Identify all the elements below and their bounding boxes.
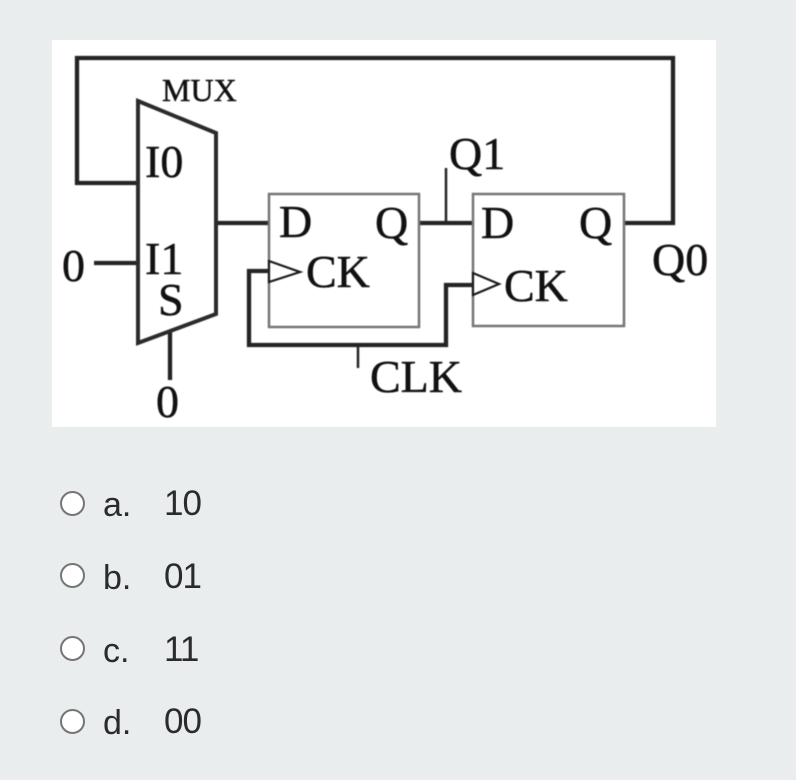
option d (60, 709, 85, 734)
pin label D of U1 (279, 196, 312, 247)
clock triangle U1 (269, 261, 300, 282)
label MUX (162, 72, 237, 108)
svg-text:CLK: CLK (370, 351, 462, 402)
svg-text:CK: CK (504, 260, 568, 311)
svg-text:CK: CK (306, 246, 370, 297)
svg-text:Q: Q (375, 197, 408, 248)
svg-text:0: 0 (156, 376, 179, 427)
pin label S (158, 274, 184, 325)
clock triangle U2 (473, 273, 499, 295)
wire node CLK tick (357, 345, 360, 368)
net label CLK (370, 351, 462, 402)
wire MUX output to FF1 D (216, 221, 269, 225)
option b (60, 563, 85, 588)
svg-text:MUX: MUX (162, 72, 237, 108)
pin label D of U2 (481, 197, 514, 248)
pin label Q of U1 (375, 197, 408, 248)
mux MUX (138, 101, 216, 343)
svg-text:D: D (279, 196, 312, 247)
pin label CK of U1 (306, 246, 370, 297)
figure panel (52, 40, 716, 427)
wire node Q1 tick (445, 168, 448, 223)
pin label I1 (145, 233, 183, 284)
pin label CK of U2 (504, 260, 568, 311)
pin label I0 (145, 136, 183, 187)
value 0 at I1 input (62, 240, 85, 291)
wire feedback Q0 to MUX I0 (77, 58, 673, 223)
pin label Q of U2 (579, 197, 612, 248)
svg-text:Q1: Q1 (449, 128, 505, 179)
flip-flop U2 box (473, 194, 624, 326)
option c (60, 636, 85, 661)
net label Q0 (652, 234, 708, 285)
svg-text:S: S (158, 274, 184, 325)
option a (60, 491, 85, 516)
value 0 at S select (156, 376, 179, 427)
wire FF1 Q to FF2 D (419, 221, 473, 225)
flip-flop U1 box (269, 194, 419, 327)
svg-text:Q: Q (579, 197, 612, 248)
svg-text:Q0: Q0 (652, 234, 708, 285)
svg-text:D: D (481, 197, 514, 248)
wire input 0 to I1 (94, 261, 138, 265)
wire CLK to FF1 CK and FF2 CK (249, 271, 473, 345)
svg-text:I0: I0 (145, 136, 183, 187)
net label Q1 (449, 128, 505, 179)
wire S select to 0 (168, 331, 172, 380)
svg-text:0: 0 (62, 240, 85, 291)
